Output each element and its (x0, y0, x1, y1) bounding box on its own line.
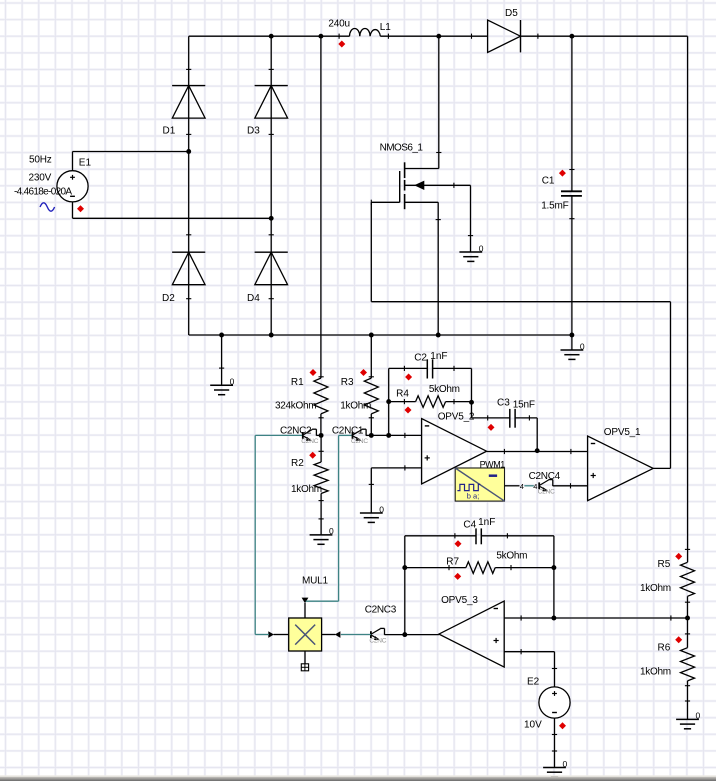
svg-text:OPV5_1: OPV5_1 (604, 427, 641, 438)
svg-text:C1: C1 (542, 176, 555, 187)
svg-text:0: 0 (580, 341, 585, 351)
svg-text:10V: 10V (524, 720, 542, 731)
svg-text:C4: C4 (463, 520, 476, 531)
svg-text:230V: 230V (29, 173, 52, 184)
svg-text:D2: D2 (162, 293, 175, 304)
svg-text:5kOhm: 5kOhm (496, 551, 527, 562)
svg-text:R1: R1 (291, 377, 304, 388)
svg-text:1.5mF: 1.5mF (541, 201, 568, 212)
svg-text:C2NC1: C2NC1 (332, 426, 364, 437)
svg-text:240u: 240u (328, 19, 349, 30)
svg-text:0: 0 (479, 243, 484, 253)
svg-text:L1: L1 (380, 22, 392, 33)
svg-text:OPV5_2: OPV5_2 (438, 412, 475, 423)
svg-text:C2NC: C2NC (538, 489, 555, 496)
svg-text:E1: E1 (79, 158, 92, 169)
svg-text:b a;: b a; (467, 492, 480, 501)
svg-text:C3: C3 (497, 398, 510, 409)
svg-text:0: 0 (329, 526, 334, 536)
svg-text:5kOhm: 5kOhm (429, 384, 460, 395)
svg-text:15nF: 15nF (513, 400, 535, 411)
svg-text:D1: D1 (163, 126, 176, 137)
svg-text:C2NC4: C2NC4 (529, 471, 561, 482)
svg-text:R6: R6 (658, 643, 671, 654)
svg-text:R5: R5 (658, 559, 671, 570)
svg-text:D5: D5 (505, 8, 518, 19)
svg-text:C2: C2 (414, 353, 427, 364)
svg-text:D4: D4 (247, 293, 260, 304)
svg-text:OPV5_3: OPV5_3 (441, 595, 478, 606)
svg-text:NMOS6_1: NMOS6_1 (380, 143, 424, 154)
svg-text:1kOhm: 1kOhm (291, 484, 322, 495)
svg-text:C2NC2: C2NC2 (280, 426, 312, 437)
svg-text:C2NC: C2NC (351, 438, 368, 445)
svg-text:C2NC3: C2NC3 (365, 605, 397, 616)
svg-text:0: 0 (379, 504, 384, 514)
svg-text:-4.4618e-020A: -4.4618e-020A (14, 187, 72, 198)
svg-text:50Hz: 50Hz (29, 155, 52, 166)
svg-text:R3: R3 (341, 377, 354, 388)
svg-text:R4: R4 (396, 389, 409, 400)
svg-text:R7: R7 (446, 557, 459, 568)
svg-text:0: 0 (696, 711, 701, 721)
svg-text:1nF: 1nF (430, 351, 447, 362)
svg-text:PWM1: PWM1 (480, 460, 506, 470)
svg-text:C2NC: C2NC (369, 637, 386, 644)
svg-text:1kOhm: 1kOhm (640, 583, 671, 594)
svg-text:1nF: 1nF (478, 517, 495, 528)
svg-text:4: 4 (520, 482, 524, 491)
svg-text:0: 0 (230, 377, 235, 387)
svg-text:MUL1: MUL1 (302, 576, 329, 587)
svg-text:1kOhm: 1kOhm (640, 667, 671, 678)
svg-text:E2: E2 (527, 677, 540, 688)
svg-text:D3: D3 (247, 126, 260, 137)
svg-text:0: 0 (563, 759, 568, 769)
svg-text:324kOhm: 324kOhm (275, 401, 316, 412)
svg-text:1kOhm: 1kOhm (340, 401, 371, 412)
svg-text:C2NC: C2NC (301, 438, 318, 445)
svg-text:R2: R2 (291, 458, 304, 469)
